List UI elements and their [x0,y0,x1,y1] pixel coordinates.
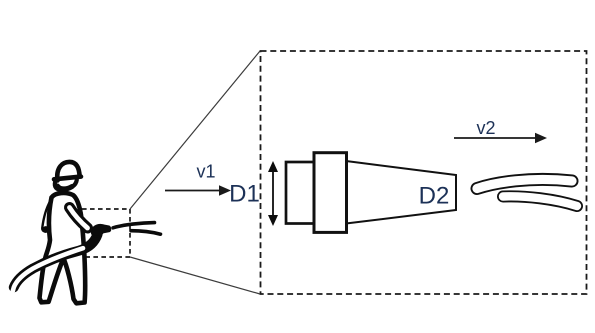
svg-text:v1: v1 [196,162,215,182]
svg-text:D2: D2 [419,183,450,210]
svg-text:D1: D1 [229,180,260,207]
svg-text:v2: v2 [476,118,495,138]
